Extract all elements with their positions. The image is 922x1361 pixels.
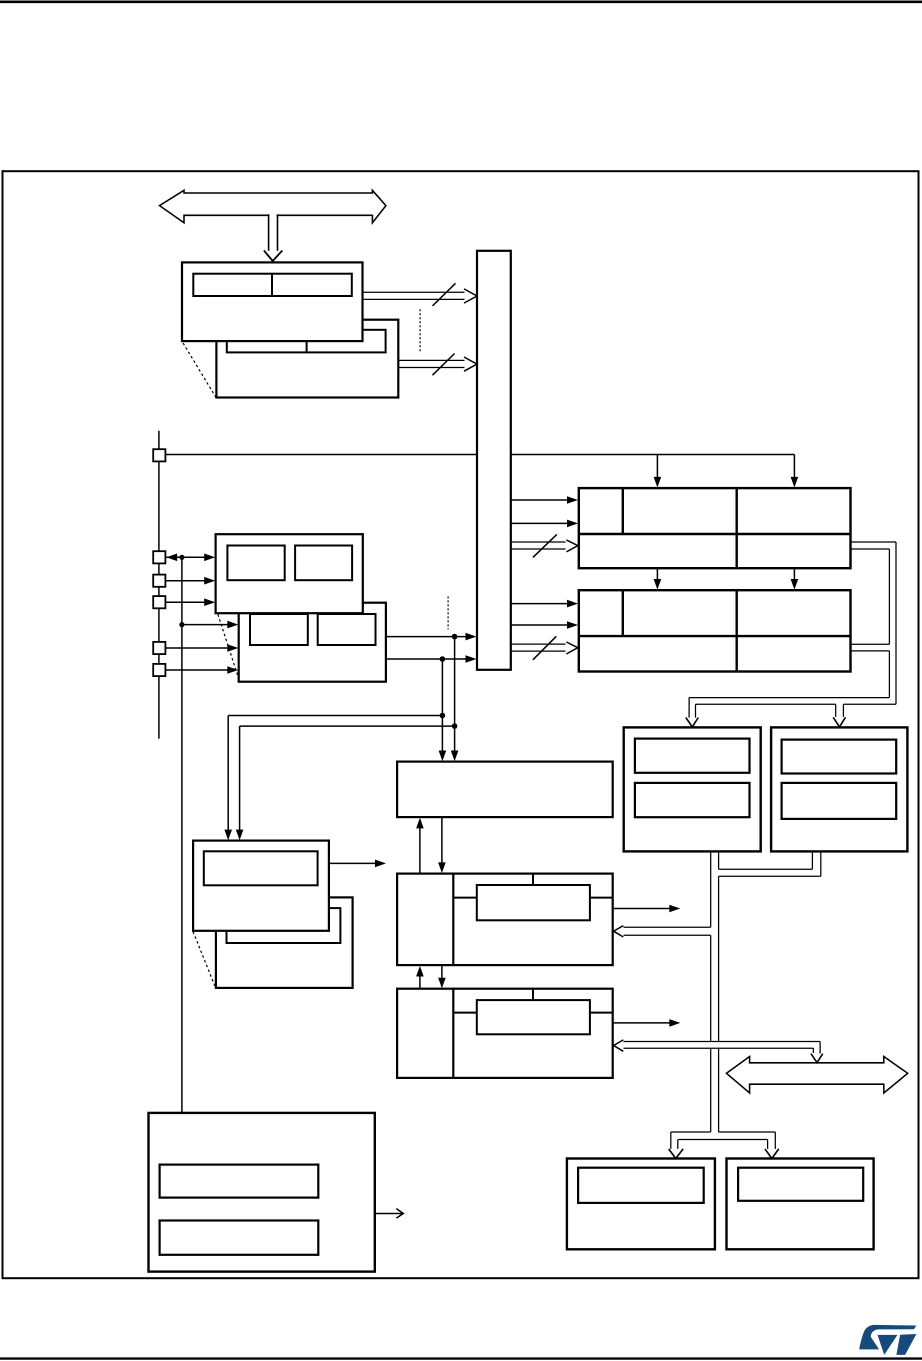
box RAM 1 (front)	[193, 841, 329, 931]
box D	[727, 1159, 874, 1250]
inner rect 2	[160, 1221, 319, 1255]
dotted diagonal U1-U2	[183, 343, 216, 397]
slash on T1 tube	[533, 534, 557, 557]
tube: left drop into box C	[670, 1132, 672, 1149]
wire: stub from top arrow down to core box (hollow bus)	[269, 213, 276, 216]
wire: long vertical branch to bottom block	[181, 557, 183, 1113]
wire: RAM1 output arrow	[329, 862, 376, 864]
box C inner	[578, 1168, 704, 1203]
box D inner	[738, 1168, 863, 1201]
box U2 (behind core, program memory)	[216, 320, 398, 398]
wire: clock line turn down into T1 right	[793, 455, 795, 478]
bottom page rule	[0, 1357, 922, 1359]
wire: horizontal to RAM upper	[228, 715, 442, 717]
wire: arrow down peripheral1 to peripheral2	[441, 965, 443, 978]
inner rect 1	[160, 1165, 319, 1198]
bus arrow U2 to address bus	[398, 359, 464, 361]
tube: box B bottom merge	[811, 851, 813, 869]
wire: bus to T1 line 2	[511, 522, 568, 524]
RAM2 inner rect	[227, 908, 341, 943]
wire: branch to port B	[182, 624, 229, 626]
wire: T1 to T2 left arrow	[656, 568, 658, 580]
wire: vertical from dot A down to EEPROM	[454, 637, 456, 752]
box C	[567, 1159, 715, 1250]
box port B (behind)	[239, 603, 386, 682]
pin P3 square	[153, 575, 165, 587]
SPI inner register	[477, 885, 590, 920]
pin P6 square	[153, 664, 165, 676]
wire: pin P2 bidirectional to port A	[166, 556, 206, 558]
wire: pin P3 to port A	[166, 580, 206, 582]
slash on T2 tube	[533, 636, 556, 660]
pin P1 square	[153, 449, 165, 461]
top page rule	[0, 0, 922, 3]
tube: drop stub into big arrow 2	[819, 1042, 821, 1054]
ST logo	[859, 1325, 916, 1355]
tube: right drop arrow into box B	[835, 704, 837, 717]
box A (timer A registers)	[624, 727, 761, 851]
wire: arrow down EEPROM to peripheral 1	[441, 817, 443, 863]
wire: external bus horizontal line behind address bus	[165, 454, 795, 456]
wire: bottom block output arrow	[375, 1213, 403, 1215]
wire: pin P4 to port A	[166, 601, 206, 603]
wire: arrow up EEPROM from peripheral 1	[419, 828, 421, 873]
big bidirectional bus arrow (top)	[160, 190, 386, 223]
wire: pin P5 to port B	[166, 647, 229, 649]
tube: T1 output right side	[851, 541, 897, 543]
bus arrow U1 to address bus	[363, 291, 465, 293]
wire: SPI output arrow	[613, 908, 670, 910]
box B inner 2	[782, 783, 897, 819]
peripheral block 1 (SPI)	[397, 874, 613, 966]
tube: bus to T1 data	[511, 541, 566, 543]
wire: clock branch down into T1 left	[656, 455, 658, 478]
box B (timer B registers)	[771, 727, 907, 851]
wire: down into RAM right	[239, 726, 241, 830]
trunk: right wall	[718, 851, 720, 869]
bottom left block (oscillator/reset)	[149, 1113, 375, 1272]
pin column spine	[158, 431, 160, 739]
junction dot	[179, 555, 184, 560]
slash on U2 bus arrow	[433, 354, 455, 376]
box port A (front)	[216, 534, 363, 613]
port A inner cell 2	[295, 546, 352, 581]
pin P2 square	[153, 551, 165, 563]
box U1 inner register pair	[193, 274, 351, 296]
box U2 inner register pair	[227, 330, 386, 353]
port A inner cell 1	[227, 546, 284, 581]
timer block T1	[579, 488, 851, 568]
pin P5 square	[153, 642, 165, 654]
wire: bus to T2 line 1	[511, 603, 568, 605]
timer block T2	[579, 590, 851, 671]
box RAM 2 (behind)	[216, 897, 353, 988]
tube: T2 output right side	[851, 643, 890, 645]
RAM1 inner rect	[204, 851, 318, 885]
dotted diagonal port A-B	[218, 614, 239, 677]
tube: SCI input from trunk with drop to big arrow	[624, 1041, 821, 1043]
wire: SCI output arrow	[613, 1022, 670, 1024]
dotted separator between bus arrows	[419, 309, 421, 351]
port B inner cell 2	[318, 614, 376, 645]
port B inner cell 1	[250, 614, 308, 645]
junction dot	[179, 622, 184, 627]
wire: pin P6 to port B	[166, 669, 229, 671]
dotted diagonal RAM1-RAM2	[193, 932, 215, 987]
wire: bus to T1 line 1	[511, 499, 568, 501]
tube: bottom split to boxes C and D	[671, 1131, 711, 1133]
address/data bus (tall rectangle)	[477, 251, 511, 670]
wire: T1 to T2 right arrow	[793, 568, 795, 580]
slash on U1 bus arrow	[433, 283, 456, 306]
tube: SPI input from trunk	[624, 926, 711, 928]
tube: bottom run to watchdog boxes	[689, 697, 889, 699]
wire: vertical from dot B down to EEPROM	[441, 659, 443, 752]
dotted separator near bus lower	[447, 596, 449, 629]
box B inner 1	[782, 740, 897, 774]
wire: down into RAM left	[227, 716, 229, 831]
tube: right drop into box D	[774, 1132, 776, 1149]
data EEPROM box	[397, 762, 613, 818]
wire: arrow up peripheral1 from peripheral2	[419, 977, 421, 989]
box A inner 2	[635, 783, 750, 817]
pin P4 square	[153, 596, 165, 608]
SCI inner register	[477, 1000, 590, 1034]
trunk: left wall	[710, 851, 712, 927]
wire: horizontal to RAM lower	[240, 725, 455, 727]
tube: bus to T2 data	[511, 643, 566, 645]
peripheral block 2 (SCI)	[397, 989, 613, 1078]
wire: port B output upper to bus	[386, 636, 466, 638]
big bidirectional bus arrow (bottom right)	[727, 1057, 908, 1094]
wire: port B output lower to bus	[386, 658, 466, 660]
box U1 (core, front)	[182, 262, 363, 341]
wire: bus to T2 line 2	[511, 624, 568, 626]
tube: left drop arrow into box A	[688, 698, 690, 718]
box A inner 1	[635, 739, 750, 773]
